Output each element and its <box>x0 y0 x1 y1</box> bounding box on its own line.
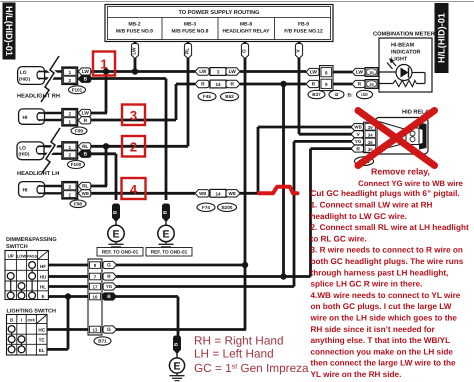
dimmer and passing switch <box>5 237 57 299</box>
wire bulb RH HI to connector <box>45 113 64 120</box>
svg-text:1: 1 <box>69 70 72 75</box>
svg-text:4: 4 <box>130 182 138 197</box>
svg-text:UP: UP <box>8 254 14 259</box>
junction R bottom <box>280 273 286 279</box>
svg-text:LIGHTING SWITCH: LIGHTING SWITCH <box>7 309 57 315</box>
svg-text:B200: B200 <box>222 205 233 210</box>
connector B37 pin9 R <box>306 79 332 88</box>
ref to GND-01 box right <box>146 248 192 257</box>
svg-text:RL: RL <box>82 144 88 150</box>
wire RL LH low beam <box>88 145 188 148</box>
svg-text:B: B <box>10 318 13 323</box>
connector F101 label <box>69 86 86 94</box>
svg-text:34: 34 <box>368 132 373 137</box>
inline connector WB F74-B200 pin14 <box>195 189 240 197</box>
svg-text:REF. TO GND-01: REF. TO GND-01 <box>151 250 188 255</box>
wire LW branch down to RH high <box>88 72 107 114</box>
svg-text:MB-2: MB-2 <box>128 22 140 28</box>
svg-text:B: B <box>113 210 119 214</box>
wire YG relay to switch <box>294 141 352 286</box>
svg-text:B: B <box>84 152 88 158</box>
connector F101 pins <box>62 67 78 84</box>
svg-text:1: 1 <box>69 145 72 150</box>
svg-text:MB-3: MB-3 <box>184 22 196 28</box>
svg-text:LOW: LOW <box>17 254 27 259</box>
dimmer contacts LOW column <box>18 283 25 299</box>
svg-text:(HID): (HID) <box>18 152 29 157</box>
svg-text:splice LH GC R wire in there.: splice LH GC R wire in there. <box>311 280 423 289</box>
HID relay body <box>375 118 428 155</box>
svg-text:COMBINATION METER: COMBINATION METER <box>373 32 435 38</box>
wire G switch pin13 <box>116 328 246 331</box>
svg-text:3: 3 <box>130 108 137 123</box>
svg-text:Connect YG wire to WB wire: Connect YG wire to WB wire <box>358 179 463 188</box>
connector F100 label <box>68 161 85 169</box>
svg-text:TO POWER SUPPLY ROUTING: TO POWER SUPPLY ROUTING <box>178 10 259 16</box>
svg-text:R: R <box>312 82 316 88</box>
svg-text:on both GC plugs. I cut the la: on both GC plugs. I cut the large LW <box>311 302 452 311</box>
svg-text:HU: HU <box>40 275 47 280</box>
svg-text:LW: LW <box>229 69 237 75</box>
svg-text:both GC headlight plugs. The w: both GC headlight plugs. The wire runs <box>311 257 464 266</box>
svg-text:YG: YG <box>106 284 113 289</box>
wire color R pin1 RH HI <box>78 117 91 124</box>
wire LW from MB-2 fuse <box>131 42 138 72</box>
svg-text:LIGHT: LIGHT <box>391 57 408 63</box>
hi-beam indicator LED U1 <box>379 58 425 84</box>
connector B71 label <box>94 337 111 345</box>
svg-text:then connect the large LW wire: then connect the large LW wire to the <box>311 359 457 368</box>
power supply routing box <box>105 5 333 42</box>
wire R branch headlights to switch <box>282 84 285 277</box>
dimmer contacts PASS column <box>29 262 36 299</box>
svg-text:M/B FUSE NO.9: M/B FUSE NO.9 <box>116 29 153 35</box>
svg-text:R: R <box>230 82 234 88</box>
svg-text:HC: HC <box>38 328 45 333</box>
ref to GND-01 box left <box>97 248 143 257</box>
headlight RH LO bulb <box>18 67 45 85</box>
junction R top <box>280 81 286 87</box>
junction LW fuse <box>132 68 138 74</box>
wire R B37 to i10 <box>333 83 352 86</box>
red X over HID relay <box>358 111 435 166</box>
svg-text:WB: WB <box>82 191 89 196</box>
svg-text:F74: F74 <box>202 205 210 210</box>
svg-text:MB-8: MB-8 <box>240 22 252 28</box>
svg-text:RH = Right Hand: RH = Right Hand <box>194 333 284 347</box>
red callout box 4 <box>122 178 146 199</box>
wire color R B71 pin7 <box>103 273 117 280</box>
svg-text:i2: i2 <box>335 92 339 97</box>
wire V from FB-9 fuse <box>295 42 302 135</box>
wire B switch pin16 to ground <box>116 297 178 339</box>
svg-text:36: 36 <box>368 140 373 145</box>
svg-text:HI-BEAM: HI-BEAM <box>391 43 415 49</box>
inline connector LW F45-B62 pin3 <box>195 68 240 76</box>
connector F98 pins <box>62 182 78 199</box>
wire color R relay pin35 <box>351 145 364 152</box>
svg-text:2: 2 <box>69 112 72 117</box>
svg-text:WB: WB <box>199 191 206 196</box>
svg-text:LW: LW <box>310 70 318 76</box>
headlight LH HI bulb <box>19 182 45 197</box>
svg-text:YG: YG <box>355 139 362 144</box>
svg-text:HEADLIGHT RH: HEADLIGHT RH <box>17 93 60 99</box>
wire RL branch down to LH high <box>88 146 107 186</box>
svg-text:LW: LW <box>132 47 138 55</box>
connector B62 label <box>221 92 239 100</box>
svg-text:1: 1 <box>100 57 107 72</box>
wire color G B71 pin8 <box>103 261 117 268</box>
svg-text:R: R <box>201 82 205 88</box>
connector B37 pin8 LW <box>306 66 333 91</box>
svg-text:PASS: PASS <box>27 255 38 259</box>
lightning break LH LO <box>42 128 60 173</box>
svg-text:R: R <box>107 274 111 280</box>
connector B37 label <box>308 90 325 98</box>
junction LW branch <box>103 68 109 74</box>
svg-text:anything else. T that into the: anything else. T that into the WB/YL <box>311 336 451 345</box>
svg-text:HL: HL <box>40 285 46 290</box>
wire R RH high beam <box>88 84 195 120</box>
connector i10 label <box>357 90 373 98</box>
wire G from MB-8 headlight relay <box>241 42 248 331</box>
svg-text:E: E <box>173 360 180 372</box>
svg-text:LH = Left Hand: LH = Left Hand <box>194 347 274 361</box>
inline connector R F45-B62 pin14 <box>195 80 240 88</box>
svg-text:LW: LW <box>356 70 364 76</box>
svg-text:LW: LW <box>199 69 207 75</box>
connector F100 pins <box>62 142 78 159</box>
dimmer contacts UP column <box>7 273 14 299</box>
svg-text:Cut GC headlight plugs with 6”: Cut GC headlight plugs with 6” pigtail. <box>311 189 460 198</box>
svg-text:through harness past LH headli: through harness past LH headlight, <box>311 268 449 277</box>
wire WB LH high <box>88 192 195 195</box>
svg-text:F99: F99 <box>75 129 83 134</box>
wire color B pin2 LH LO <box>78 150 91 157</box>
svg-text:F98: F98 <box>74 202 82 207</box>
svg-text:B: B <box>84 77 88 83</box>
wire color B B71 pin16 <box>103 293 117 300</box>
svg-text:EL: EL <box>39 348 45 353</box>
svg-text:LO: LO <box>20 70 27 76</box>
resistor R1 in meter <box>379 80 425 86</box>
svg-text:WB: WB <box>354 125 361 130</box>
svg-text:OFF: OFF <box>28 319 36 323</box>
red instruction notes <box>310 166 469 379</box>
svg-text:F45: F45 <box>203 94 211 99</box>
svg-text:B: B <box>163 210 169 214</box>
svg-text:2: 2 <box>130 140 137 155</box>
connector B200 label <box>218 203 237 211</box>
svg-text:9: 9 <box>325 82 328 87</box>
svg-text:B:: B: <box>348 93 353 99</box>
left page tab H/L(HID)-01 <box>3 3 16 60</box>
wire color B pin2 RH LO <box>78 75 91 82</box>
svg-text:G: G <box>107 263 111 269</box>
wire lighting HC row <box>47 328 91 331</box>
connector i10 pin29 R <box>352 80 378 89</box>
wire lighting EL to dimmer E <box>47 297 69 350</box>
svg-text:H/L(HID)-01: H/L(HID)-01 <box>4 6 14 56</box>
wire color WB pin1 LH HI <box>78 190 91 197</box>
wire B RH low to ground <box>88 79 166 201</box>
wire dimmer HL row <box>48 285 90 288</box>
svg-text:B: B <box>107 294 111 300</box>
svg-text:B: B <box>174 342 180 346</box>
svg-text:R: R <box>358 82 362 88</box>
svg-text:17: 17 <box>93 284 98 289</box>
svg-text:SWITCH: SWITCH <box>6 244 28 250</box>
svg-text:LW: LW <box>82 69 90 75</box>
svg-text:1: 1 <box>69 193 72 198</box>
svg-text:14: 14 <box>215 191 221 196</box>
wire V to relay <box>299 133 352 136</box>
wire color WB relay pin39 <box>351 124 364 131</box>
svg-text:F/B FUSE NO.12: F/B FUSE NO.12 <box>284 29 323 35</box>
combination meter box <box>373 32 435 92</box>
svg-text:39: 39 <box>368 125 373 130</box>
junction dimmer E / lighting EL <box>65 293 71 299</box>
wire bulb LH HI to connector <box>45 186 64 193</box>
ground E LH side <box>108 204 124 249</box>
wire color YG relay pin36 <box>351 138 364 145</box>
connector B225 label <box>355 157 374 166</box>
svg-text:1: 1 <box>69 120 72 125</box>
svg-text:3. R wire needs to connect to: 3. R wire needs to connect to R wire on <box>311 246 463 255</box>
lighting contacts I column <box>18 336 25 353</box>
svg-text:connection you make on the LH: connection you make on the LH side <box>311 347 454 356</box>
wire color LW pin2 RH HI <box>78 109 91 116</box>
svg-text:HEADLIGHT RELAY: HEADLIGHT RELAY <box>222 29 270 35</box>
wire dimmer HU row <box>48 275 90 278</box>
svg-text:2: 2 <box>69 185 72 190</box>
svg-text:14: 14 <box>215 82 221 87</box>
svg-text:2: 2 <box>69 153 72 158</box>
svg-text:4.WB wire needs to connect to: 4.WB wire needs to connect to YL wire <box>311 291 461 300</box>
svg-text:GC = 1st Gen Impreza: GC = 1st Gen Impreza <box>194 361 309 375</box>
connector F99 label <box>71 127 87 135</box>
svg-text:RL: RL <box>185 48 191 54</box>
svg-text:I: I <box>21 318 22 323</box>
wire G switch pin8 <box>116 264 245 267</box>
headlight RH HI bulb <box>19 109 45 124</box>
wire color LW pin1 RH LO <box>78 68 91 75</box>
red callout box 1 <box>93 52 115 76</box>
svg-text:R: R <box>84 118 88 124</box>
right page tab H/L(HID)-01 <box>435 3 449 73</box>
svg-text:TC: TC <box>39 338 46 343</box>
connector B71 body <box>88 259 102 335</box>
svg-text:RL: RL <box>82 184 88 190</box>
svg-text:E: E <box>112 228 119 240</box>
svg-text:E: E <box>41 294 44 299</box>
lighting contacts B column <box>8 326 15 353</box>
svg-text:B37: B37 <box>312 92 321 97</box>
svg-text:HF: HF <box>40 264 46 269</box>
svg-text:2: 2 <box>69 78 72 83</box>
ground E bottom <box>169 336 184 381</box>
svg-text:HI: HI <box>23 115 29 121</box>
wire RL from MB-3 fuse <box>184 42 191 147</box>
wire B LH low to ground <box>88 154 116 200</box>
svg-text:M/B FUSE NO.8: M/B FUSE NO.8 <box>172 29 209 35</box>
svg-text:F100: F100 <box>71 162 82 167</box>
svg-text:8: 8 <box>325 70 328 75</box>
wire R relay to switch <box>311 149 353 277</box>
svg-text:E: E <box>162 228 169 240</box>
svg-text:i10: i10 <box>361 92 368 97</box>
svg-text:B71: B71 <box>98 339 107 344</box>
svg-text:Remove relay,: Remove relay, <box>371 166 430 176</box>
headlight LH LO bulb <box>17 142 45 160</box>
legend notes <box>194 333 309 375</box>
wire color V relay pin34 <box>351 131 364 138</box>
svg-text:RH side since it isn’t needed: RH side since it isn’t needed for <box>311 325 436 334</box>
svg-text:HI: HI <box>23 188 29 194</box>
svg-text:3: 3 <box>217 70 220 75</box>
svg-text:(HID): (HID) <box>19 76 30 81</box>
connector F99 pins <box>62 109 78 126</box>
connector F45 label <box>198 92 216 100</box>
svg-text:R: R <box>356 146 360 152</box>
wire bulb LH LO to connector <box>45 146 64 154</box>
svg-text:2. Connect small RL wire at LH: 2. Connect small RL wire at LH headlight <box>311 223 469 232</box>
red jumper wire YG to WB <box>259 187 298 194</box>
wire LW bus RH low beam <box>88 70 195 73</box>
wire LW B37 to i10 <box>333 71 352 74</box>
wire color YG B71 pin17 <box>103 283 117 290</box>
svg-text:WB: WB <box>229 191 236 196</box>
svg-text:F101: F101 <box>72 88 83 93</box>
connector i10 pin30 LW <box>352 68 378 77</box>
wire R to meter <box>240 83 306 86</box>
wire R switch pin7 <box>116 275 311 278</box>
wire dimmer E row <box>48 295 90 298</box>
svg-text:DIMMER&PASSING: DIMMER&PASSING <box>6 237 57 243</box>
svg-text:YL wire on the RH side.: YL wire on the RH side. <box>311 370 402 379</box>
svg-text:30: 30 <box>369 71 373 75</box>
svg-text:G: G <box>107 327 111 333</box>
svg-text:29: 29 <box>369 83 373 87</box>
ground E RH side <box>158 204 174 249</box>
connector i2 label <box>329 90 344 98</box>
svg-text:to RL GC wire.: to RL GC wire. <box>311 234 367 243</box>
svg-text:wire on the LH side which goes: wire on the LH side which goes to the <box>310 314 458 323</box>
svg-text:B62: B62 <box>225 94 234 99</box>
wire dimmer HF row <box>48 264 90 267</box>
svg-text:H/L(HID)-01: H/L(HID)-01 <box>437 13 447 63</box>
svg-text:16: 16 <box>93 294 98 299</box>
wire YG switch pin17 <box>116 285 294 288</box>
red callout box 2 <box>122 136 145 157</box>
wire color RL pin2 LH HI <box>78 182 91 189</box>
red callout box 3 <box>122 105 145 126</box>
wire color RL pin1 LH LO <box>78 143 91 150</box>
svg-text:LO: LO <box>19 146 26 152</box>
svg-text:1. Connect small LW wire at RH: 1. Connect small LW wire at RH <box>311 201 433 210</box>
connector F74 label <box>197 203 215 211</box>
svg-text:LW: LW <box>82 111 90 117</box>
junction RL branch <box>103 143 109 149</box>
HID relay connector pins <box>364 122 378 153</box>
junction G <box>242 262 248 268</box>
svg-text:FB-9: FB-9 <box>298 22 309 28</box>
wire WB to relay <box>236 127 352 193</box>
wire color G B71 pin13 <box>103 326 117 333</box>
svg-text:REF. TO GND-01: REF. TO GND-01 <box>102 250 139 255</box>
svg-text:G: G <box>242 49 248 53</box>
wire bulb RH LO to connector <box>45 72 64 79</box>
svg-text:HEADLIGHT LH: HEADLIGHT LH <box>17 171 59 177</box>
lighting switch <box>7 309 57 355</box>
svg-text:13: 13 <box>93 327 98 332</box>
lightning break RH LO <box>41 56 59 102</box>
wire LW bus to meter <box>240 70 306 73</box>
connector F98 label <box>70 200 86 208</box>
svg-text:INDICATOR: INDICATOR <box>391 50 421 56</box>
svg-text:headlight to LW GC wire.: headlight to LW GC wire. <box>311 212 407 221</box>
